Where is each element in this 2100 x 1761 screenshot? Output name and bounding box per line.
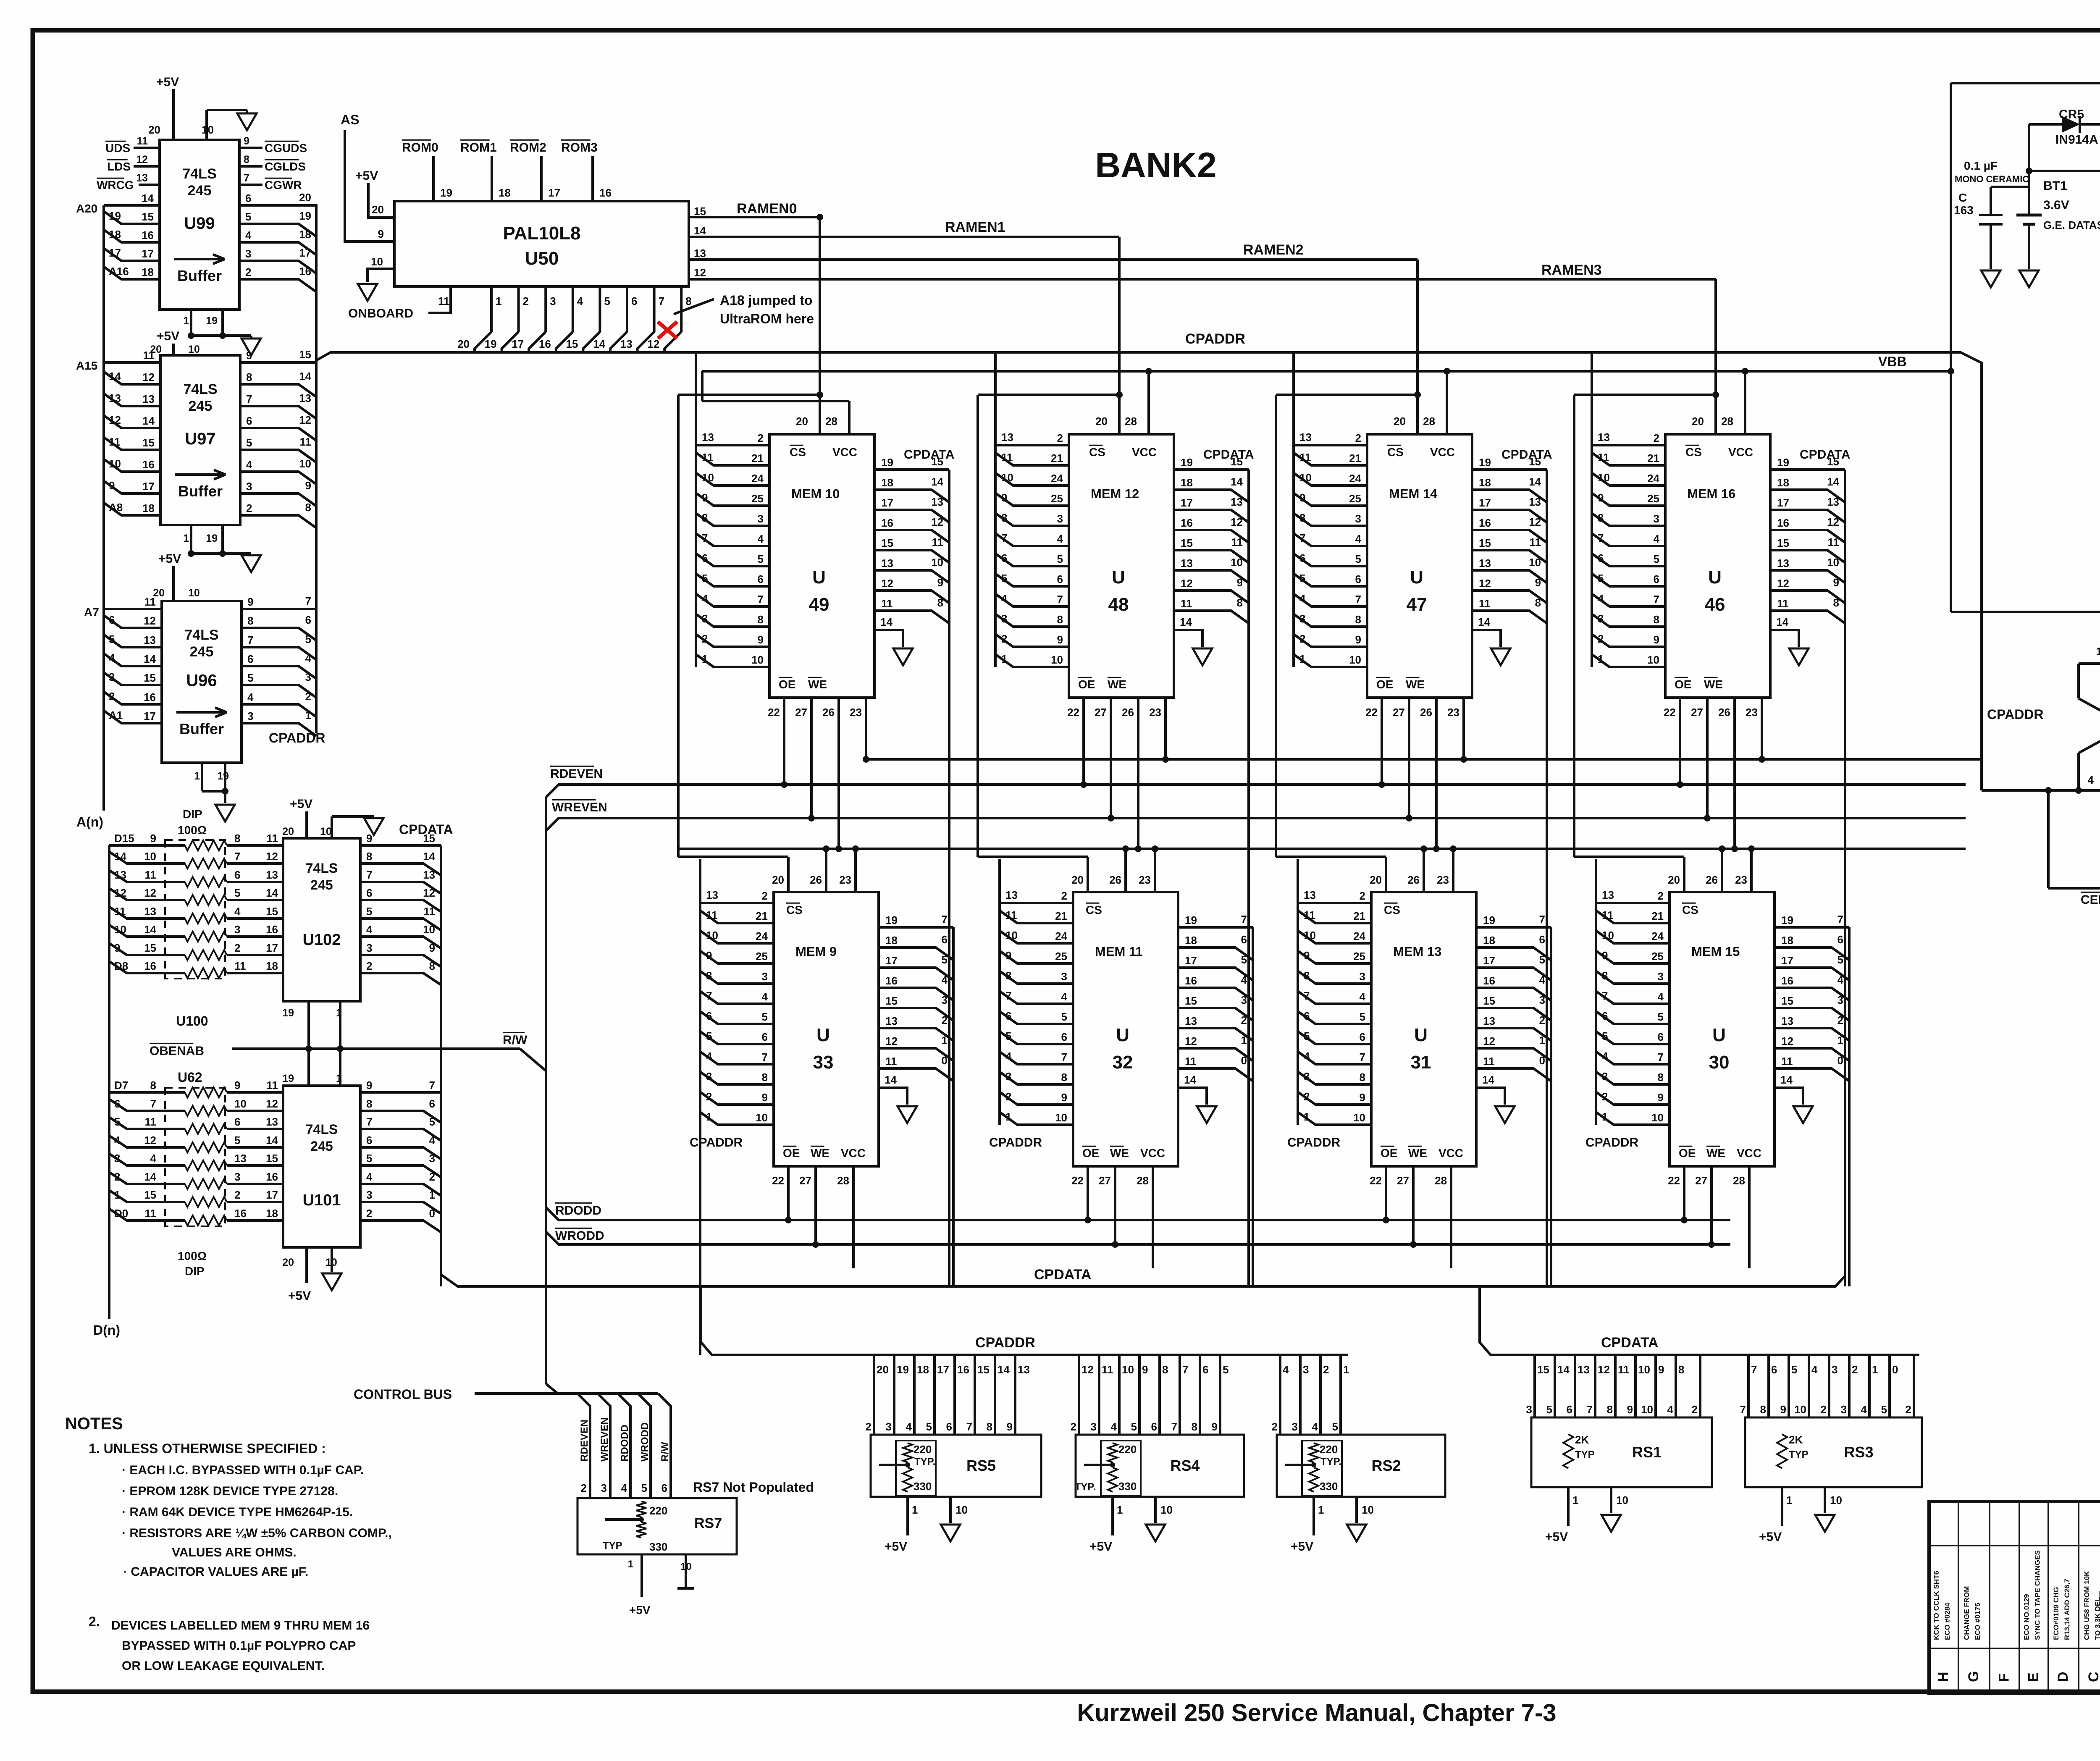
svg-text:6: 6 <box>109 614 115 626</box>
svg-text:10: 10 <box>1647 653 1659 666</box>
svg-text:14: 14 <box>142 415 155 427</box>
svg-text:16: 16 <box>1181 517 1193 529</box>
svg-text:9: 9 <box>1237 576 1243 589</box>
svg-text:23: 23 <box>1437 874 1449 886</box>
svg-text:11: 11 <box>234 960 246 972</box>
svg-text:14: 14 <box>144 1171 156 1183</box>
svg-text:D8: D8 <box>114 960 128 972</box>
svg-text:19: 19 <box>881 456 893 469</box>
svg-text:+5V: +5V <box>355 169 378 183</box>
svg-text:18: 18 <box>499 186 511 199</box>
svg-text:24: 24 <box>1349 472 1361 485</box>
svg-text:7: 7 <box>942 913 948 926</box>
svg-text:7: 7 <box>1654 593 1659 606</box>
svg-text:6: 6 <box>1539 933 1545 946</box>
svg-text:R/W: R/W <box>659 1442 671 1462</box>
svg-text:U99: U99 <box>184 214 215 233</box>
svg-text:A18 jumped to: A18 jumped to <box>720 293 812 308</box>
svg-text:7: 7 <box>366 1115 372 1128</box>
svg-text:11: 11 <box>1102 1363 1113 1376</box>
svg-text:12: 12 <box>1827 516 1839 528</box>
wires data bus out of U46 <box>1770 468 1845 471</box>
svg-text:12: 12 <box>1081 1363 1094 1376</box>
svg-text:3: 3 <box>1299 612 1305 625</box>
svg-text:2: 2 <box>942 1014 948 1026</box>
svg-text:U100: U100 <box>176 1013 208 1029</box>
svg-text:3: 3 <box>429 1152 435 1165</box>
svg-text:4: 4 <box>366 923 373 936</box>
svg-text:BYPASSED WITH 0.1µF POLYPRO CA: BYPASSED WITH 0.1µF POLYPRO CAP <box>122 1639 356 1653</box>
svg-text:13: 13 <box>1299 431 1312 444</box>
svg-text:CPADDR: CPADDR <box>1585 1136 1638 1150</box>
svg-text:D: D <box>2055 1672 2071 1682</box>
svg-text:MEM 13: MEM 13 <box>1393 944 1441 959</box>
svg-text:7: 7 <box>1241 913 1247 926</box>
svg-text:4: 4 <box>577 295 583 307</box>
svg-text:CS: CS <box>786 903 803 916</box>
svg-text:4: 4 <box>706 1050 712 1063</box>
svg-text:4: 4 <box>109 652 115 664</box>
svg-text:A16: A16 <box>109 265 129 278</box>
svg-text:3: 3 <box>1832 1363 1837 1376</box>
svg-text:4: 4 <box>1667 1403 1674 1416</box>
svg-text:9: 9 <box>1360 1091 1365 1104</box>
svg-text:6: 6 <box>1654 573 1659 585</box>
control signal WRODD drop <box>638 1394 651 1470</box>
svg-text:8: 8 <box>1833 596 1839 609</box>
svg-text:9: 9 <box>1057 633 1063 646</box>
svg-text:11: 11 <box>881 597 893 610</box>
svg-text:+5V: +5V <box>1089 1540 1112 1554</box>
svg-text:5: 5 <box>1131 1420 1137 1433</box>
svg-text:CS: CS <box>1685 446 1702 459</box>
svg-text:1: 1 <box>183 533 189 544</box>
svg-text:11: 11 <box>144 596 156 608</box>
svg-text:5: 5 <box>114 1115 120 1128</box>
svg-text:1: 1 <box>1117 1504 1123 1516</box>
svg-text:16: 16 <box>266 1171 278 1183</box>
svg-text:7: 7 <box>366 869 372 881</box>
svg-text:13: 13 <box>1781 1015 1793 1027</box>
svg-text:9: 9 <box>1833 576 1839 589</box>
svg-text:11: 11 <box>267 832 278 845</box>
svg-text:Buffer: Buffer <box>178 483 223 500</box>
svg-text:10: 10 <box>1794 1403 1806 1416</box>
svg-text:4: 4 <box>247 691 254 703</box>
svg-text:VCC: VCC <box>1140 1147 1165 1160</box>
svg-text:28: 28 <box>1137 1174 1149 1187</box>
svg-text:8: 8 <box>1607 1403 1613 1416</box>
svg-text:2: 2 <box>305 690 311 703</box>
svg-text:13: 13 <box>109 392 121 404</box>
svg-text:5: 5 <box>1598 572 1604 585</box>
bus A(n) vertical <box>102 205 105 811</box>
svg-text:6: 6 <box>1567 1403 1572 1416</box>
svg-text:245: 245 <box>188 183 212 199</box>
svg-text:2: 2 <box>1071 1420 1076 1433</box>
svg-text:11: 11 <box>438 295 450 307</box>
svg-text:4: 4 <box>114 1134 121 1147</box>
svg-text:11: 11 <box>1483 1055 1495 1068</box>
svg-text:16: 16 <box>539 338 551 350</box>
svg-text:4: 4 <box>366 1171 373 1183</box>
svg-text:DIP: DIP <box>183 808 202 821</box>
svg-text:U: U <box>812 567 826 588</box>
svg-text:5: 5 <box>1057 553 1063 565</box>
svg-text:+5V: +5V <box>629 1604 651 1617</box>
svg-text:20: 20 <box>877 1363 889 1376</box>
svg-text:4: 4 <box>305 652 312 664</box>
svg-text:OE: OE <box>1675 678 1691 691</box>
svg-text:10: 10 <box>1001 471 1013 484</box>
svg-text:5: 5 <box>1304 1030 1310 1042</box>
svg-text:4: 4 <box>1598 592 1604 605</box>
svg-text:10: 10 <box>1598 471 1610 484</box>
svg-text:7: 7 <box>1751 1363 1757 1376</box>
svg-text:19: 19 <box>109 210 121 222</box>
svg-text:2: 2 <box>866 1420 871 1433</box>
svg-text:10: 10 <box>1529 556 1541 569</box>
svg-text:11: 11 <box>1181 597 1192 610</box>
svg-text:2: 2 <box>1539 1014 1545 1026</box>
svg-text:6: 6 <box>942 933 948 946</box>
svg-text:2: 2 <box>706 1090 712 1103</box>
svg-text:23: 23 <box>850 706 862 719</box>
svg-text:20: 20 <box>299 191 311 204</box>
wire data bus vertical U49 <box>948 470 950 1286</box>
svg-text:17: 17 <box>937 1363 949 1376</box>
svg-text:· EACH I.C. BYPASSED WITH 0.1µ: · EACH I.C. BYPASSED WITH 0.1µF CAP. <box>122 1463 364 1477</box>
svg-text:CS: CS <box>1089 446 1105 459</box>
svg-text:+5V: +5V <box>157 329 179 343</box>
svg-text:15: 15 <box>694 205 706 218</box>
control signal RDODD drop <box>618 1394 630 1470</box>
svg-text:11: 11 <box>143 349 155 362</box>
svg-text:6: 6 <box>706 1010 712 1022</box>
wires CP bus into RS5 <box>873 1355 875 1435</box>
svg-text:7: 7 <box>1304 989 1310 1002</box>
svg-text:3: 3 <box>1355 512 1361 525</box>
pins 22,27,26,23 below U49 <box>783 698 785 785</box>
svg-text:3: 3 <box>1602 1070 1608 1083</box>
svg-text:VCC: VCC <box>832 446 857 459</box>
svg-text:RS2: RS2 <box>1371 1457 1401 1474</box>
svg-text:13: 13 <box>1231 496 1243 508</box>
svg-text:10: 10 <box>1231 556 1243 569</box>
svg-text:13: 13 <box>881 557 893 570</box>
memory chip U31 MEM 13 <box>1371 892 1476 1166</box>
svg-text:1: 1 <box>183 315 189 327</box>
revision table <box>1958 1501 1959 1693</box>
svg-text:7: 7 <box>1602 989 1608 1002</box>
ground U31 pin 14 <box>1476 1088 1505 1105</box>
svg-text:220: 220 <box>913 1443 932 1456</box>
svg-text:9: 9 <box>244 135 249 147</box>
svg-text:25: 25 <box>756 950 768 963</box>
svg-text:9: 9 <box>1535 576 1541 589</box>
wire CPADDR drop to U46 left bus <box>1591 352 1593 667</box>
pins 22,27,28 below U30 <box>1683 1166 1685 1220</box>
svg-text:15: 15 <box>1181 537 1193 549</box>
svg-text:CPADDR: CPADDR <box>975 1335 1035 1351</box>
svg-text:13: 13 <box>266 1115 278 1128</box>
svg-text:2: 2 <box>1057 432 1063 444</box>
svg-text:CGWR: CGWR <box>265 178 302 192</box>
svg-text:3: 3 <box>109 671 115 683</box>
svg-text:WE: WE <box>1108 678 1126 691</box>
svg-text:6: 6 <box>366 1134 372 1147</box>
svg-text:6: 6 <box>1001 552 1007 564</box>
svg-text:2: 2 <box>366 960 372 972</box>
svg-text:24: 24 <box>1647 472 1659 485</box>
pins 22,27,26,23 below U47 <box>1381 698 1383 785</box>
svg-text:20: 20 <box>772 874 784 886</box>
svg-text:4: 4 <box>1283 1363 1289 1376</box>
svg-text:46: 46 <box>1705 594 1725 615</box>
svg-text:11: 11 <box>267 1079 278 1092</box>
svg-text:19: 19 <box>440 186 452 199</box>
svg-text:TYP.: TYP. <box>1075 1481 1096 1493</box>
svg-text:3: 3 <box>886 1420 892 1433</box>
svg-text:11: 11 <box>1005 909 1017 921</box>
bus CPADDR horizontal top <box>316 352 1982 790</box>
svg-text:1: 1 <box>1299 653 1305 665</box>
wire CPADDR drop to U47 left bus <box>1292 352 1295 667</box>
svg-text:15: 15 <box>142 210 154 223</box>
wires data bus out of U32 <box>1178 926 1253 929</box>
svg-text:CHANGE FROM: CHANGE FROM <box>1963 1586 1971 1640</box>
wires address bus into U32 <box>1000 902 1073 904</box>
svg-text:9: 9 <box>1142 1363 1148 1376</box>
svg-text:8: 8 <box>987 1420 992 1433</box>
svg-text:26: 26 <box>822 706 835 719</box>
svg-text:CPADDR: CPADDR <box>1287 1136 1340 1150</box>
svg-text:18: 18 <box>109 228 121 241</box>
svg-text:RAMEN3: RAMEN3 <box>1541 262 1602 278</box>
svg-text:23: 23 <box>1149 706 1161 719</box>
svg-text:25: 25 <box>1651 950 1664 963</box>
svg-text:5: 5 <box>1546 1403 1552 1416</box>
svg-text:A8: A8 <box>109 501 123 514</box>
svg-text:9: 9 <box>1007 1420 1013 1433</box>
svg-text:12: 12 <box>299 414 311 426</box>
svg-text:13: 13 <box>1181 557 1193 570</box>
svg-text:9: 9 <box>1658 1363 1664 1376</box>
svg-text:WREVEN: WREVEN <box>599 1417 610 1462</box>
annotation Buffer arrow U97 <box>175 473 226 476</box>
svg-text:16: 16 <box>144 960 156 972</box>
svg-text:18: 18 <box>266 960 278 972</box>
svg-text:24: 24 <box>1055 930 1067 942</box>
svg-text:CHG U58 FROM 10K: CHG U58 FROM 10K <box>2083 1571 2091 1640</box>
svg-text:1: 1 <box>1343 1363 1349 1376</box>
svg-text:28: 28 <box>825 415 837 428</box>
svg-text:CPADDR: CPADDR <box>269 730 325 745</box>
svg-text:VCC: VCC <box>1438 1147 1463 1160</box>
svg-text:21: 21 <box>751 452 764 465</box>
svg-text:4: 4 <box>1241 974 1247 986</box>
wires U99 outputs to CPADDR bus <box>239 204 316 207</box>
svg-text:8: 8 <box>1355 613 1361 626</box>
svg-text:8: 8 <box>150 1079 156 1092</box>
net CEINHIBIT <box>2047 790 2050 888</box>
svg-text:5: 5 <box>366 905 372 918</box>
ground U50 pin10 <box>367 269 394 282</box>
svg-text:CPDATA: CPDATA <box>1601 1335 1659 1351</box>
svg-text:14: 14 <box>1557 1363 1570 1376</box>
svg-text:21: 21 <box>1349 452 1361 465</box>
svg-text:WE: WE <box>808 678 827 691</box>
svg-text:9: 9 <box>109 479 115 492</box>
svg-text:+5V: +5V <box>1291 1540 1313 1554</box>
svg-text:4: 4 <box>942 974 948 986</box>
bus CPDATA vertical from U102/U101 <box>440 845 442 1286</box>
svg-text:17: 17 <box>885 954 898 967</box>
svg-text:7: 7 <box>1057 593 1063 606</box>
svg-text:4: 4 <box>2088 774 2094 786</box>
wire CS feed U32 from RAMEN drop <box>1116 391 1123 398</box>
svg-text:27: 27 <box>1095 706 1107 719</box>
svg-text:11: 11 <box>114 905 126 918</box>
svg-text:7: 7 <box>429 1079 435 1092</box>
svg-text:Buffer: Buffer <box>177 267 222 284</box>
svg-text:27: 27 <box>1397 1174 1409 1187</box>
svg-text:4: 4 <box>1837 974 1844 986</box>
svg-text:8: 8 <box>234 832 240 845</box>
svg-text:3: 3 <box>305 671 311 683</box>
svg-text:8: 8 <box>305 501 311 514</box>
svg-text:25: 25 <box>1055 950 1067 963</box>
svg-text:10: 10 <box>1349 653 1361 666</box>
svg-text:BT1: BT1 <box>2043 179 2067 193</box>
svg-text:R/W: R/W <box>503 1033 528 1047</box>
svg-text:1: 1 <box>114 1189 120 1201</box>
svg-text:12: 12 <box>885 1035 898 1047</box>
bus CPDATA main horizontal <box>441 1275 1844 1286</box>
svg-text:17: 17 <box>1483 954 1495 967</box>
svg-text:1: 1 <box>1318 1504 1324 1516</box>
svg-text:14: 14 <box>266 887 278 899</box>
svg-text:28: 28 <box>1423 415 1435 428</box>
svg-text:13: 13 <box>1185 1015 1197 1027</box>
svg-text:5: 5 <box>1654 553 1659 565</box>
svg-text:22: 22 <box>1365 706 1378 719</box>
svg-text:2: 2 <box>114 1171 120 1183</box>
wire CS feed U33 from RAMEN drop <box>816 391 823 398</box>
svg-text:A(n): A(n) <box>76 814 103 829</box>
svg-text:15: 15 <box>266 905 278 918</box>
svg-text:5: 5 <box>706 1030 712 1042</box>
svg-text:11: 11 <box>1618 1363 1630 1376</box>
pins 20,26,23 above U31 <box>1385 857 1387 892</box>
wire CR5 anode to battery node <box>2028 124 2030 215</box>
svg-text:330: 330 <box>913 1480 932 1493</box>
svg-text:12: 12 <box>266 850 278 863</box>
svg-text:2.: 2. <box>89 1614 100 1629</box>
svg-text:U: U <box>1116 1025 1129 1045</box>
svg-text:8: 8 <box>762 1071 768 1084</box>
svg-text:19: 19 <box>1185 914 1197 926</box>
svg-text:9: 9 <box>937 576 943 589</box>
wires data bus out of U31 <box>1476 926 1551 929</box>
memory chip U30 MEM 15 <box>1669 892 1774 1166</box>
svg-text:13: 13 <box>1479 557 1491 570</box>
svg-text:3: 3 <box>1061 970 1067 983</box>
svg-text:16: 16 <box>144 691 156 703</box>
svg-text:27: 27 <box>799 1174 811 1187</box>
svg-text:5: 5 <box>234 1134 240 1147</box>
svg-text:+5V: +5V <box>158 552 181 566</box>
svg-text:25: 25 <box>1353 950 1365 963</box>
svg-text:5: 5 <box>641 1482 647 1494</box>
svg-text:8: 8 <box>1057 613 1063 626</box>
svg-text:10: 10 <box>188 587 200 599</box>
svg-text:8: 8 <box>1602 969 1608 982</box>
svg-text:11: 11 <box>932 536 944 549</box>
svg-text:16: 16 <box>885 974 898 987</box>
svg-text:14: 14 <box>1231 475 1243 488</box>
svg-text:CPADDR: CPADDR <box>1987 707 2044 722</box>
svg-text:U62: U62 <box>178 1070 202 1085</box>
svg-text:VBB: VBB <box>1878 354 1907 369</box>
svg-text:MEM 16: MEM 16 <box>1687 486 1735 501</box>
svg-text:19: 19 <box>897 1363 909 1376</box>
svg-text:18: 18 <box>1483 934 1495 947</box>
svg-text:2: 2 <box>1241 1014 1247 1026</box>
svg-text:15: 15 <box>266 1152 278 1165</box>
svg-text:17: 17 <box>144 710 156 722</box>
svg-text:6: 6 <box>1005 1010 1011 1022</box>
svg-text:5: 5 <box>1837 953 1843 966</box>
svg-text:6: 6 <box>1299 552 1305 564</box>
svg-text:27: 27 <box>1691 706 1703 719</box>
svg-text:4: 4 <box>758 533 764 545</box>
svg-text:OBENAB: OBENAB <box>150 1044 204 1058</box>
svg-text:U102: U102 <box>303 931 341 949</box>
svg-text:9: 9 <box>366 1079 372 1092</box>
svg-text:20: 20 <box>1692 415 1704 428</box>
svg-text:VALUES ARE OHMS.: VALUES ARE OHMS. <box>172 1546 297 1559</box>
wire data bus vertical U30 to CPDATA <box>1848 927 1851 1286</box>
annotation Buffer arrow U99 <box>174 258 225 260</box>
svg-text:13: 13 <box>1005 889 1018 901</box>
svg-text:12: 12 <box>1781 1035 1793 1047</box>
svg-text:20: 20 <box>1668 874 1680 886</box>
svg-text:49: 49 <box>809 594 829 615</box>
svg-text:20: 20 <box>1071 874 1084 886</box>
svg-text:22: 22 <box>1370 1174 1382 1187</box>
svg-text:19: 19 <box>1479 456 1491 469</box>
svg-text:13: 13 <box>706 889 718 901</box>
svg-text:6: 6 <box>1304 1010 1310 1022</box>
svg-text:6: 6 <box>1360 1031 1365 1043</box>
svg-text:ROM3: ROM3 <box>561 141 598 155</box>
svg-text:4: 4 <box>1111 1420 1117 1433</box>
svg-text:SYNC TO TAPE CHANGES: SYNC TO TAPE CHANGES <box>2034 1550 2042 1640</box>
svg-text:14: 14 <box>1482 1073 1494 1086</box>
svg-text:18: 18 <box>142 502 155 514</box>
svg-text:RAMEN2: RAMEN2 <box>1243 242 1304 258</box>
pins 20,26,23 above U32 <box>1087 857 1089 892</box>
svg-text:12: 12 <box>114 887 126 899</box>
svg-text:15: 15 <box>144 1189 156 1201</box>
svg-text:2: 2 <box>366 1207 372 1220</box>
svg-text:4: 4 <box>246 458 252 471</box>
svg-text:20: 20 <box>1095 415 1108 428</box>
svg-text:OE: OE <box>779 678 795 691</box>
svg-text:5: 5 <box>762 1010 768 1023</box>
ground U49 pin 14 <box>874 630 903 647</box>
